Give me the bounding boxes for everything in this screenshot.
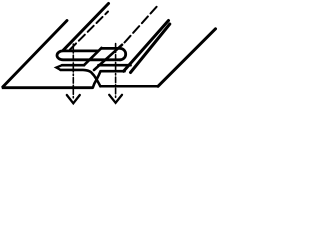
curve1 X left leg rising: [93, 71, 101, 88]
dashed stitch left: [70, 12, 108, 50]
left sheet front edge: [2, 86, 93, 89]
band left solid: [84, 48, 102, 65]
lower capsule bottom + X right leg: [61, 70, 101, 86]
upper capsule: top, left cap, long bottom: [57, 51, 120, 60]
left ply diagonal A2: [63, 4, 108, 51]
lower capsule top: [62, 64, 84, 67]
needle line 2: [115, 44, 117, 100]
right cap D: [102, 48, 126, 59]
band right solid: [94, 45, 122, 70]
lower capsule left V fold: [56, 65, 62, 70]
left sheet edge: [3, 21, 67, 87]
right slab line 2: [131, 24, 170, 73]
dashed stitch right: [125, 6, 158, 42]
right sheet right edge: [158, 29, 216, 87]
needle line 1: [72, 44, 74, 100]
right sheet front edge: [101, 85, 158, 88]
right ply upper horizontal: [99, 64, 131, 67]
right ply lower horizontal: [101, 70, 125, 73]
right slab line 1: [124, 21, 169, 72]
